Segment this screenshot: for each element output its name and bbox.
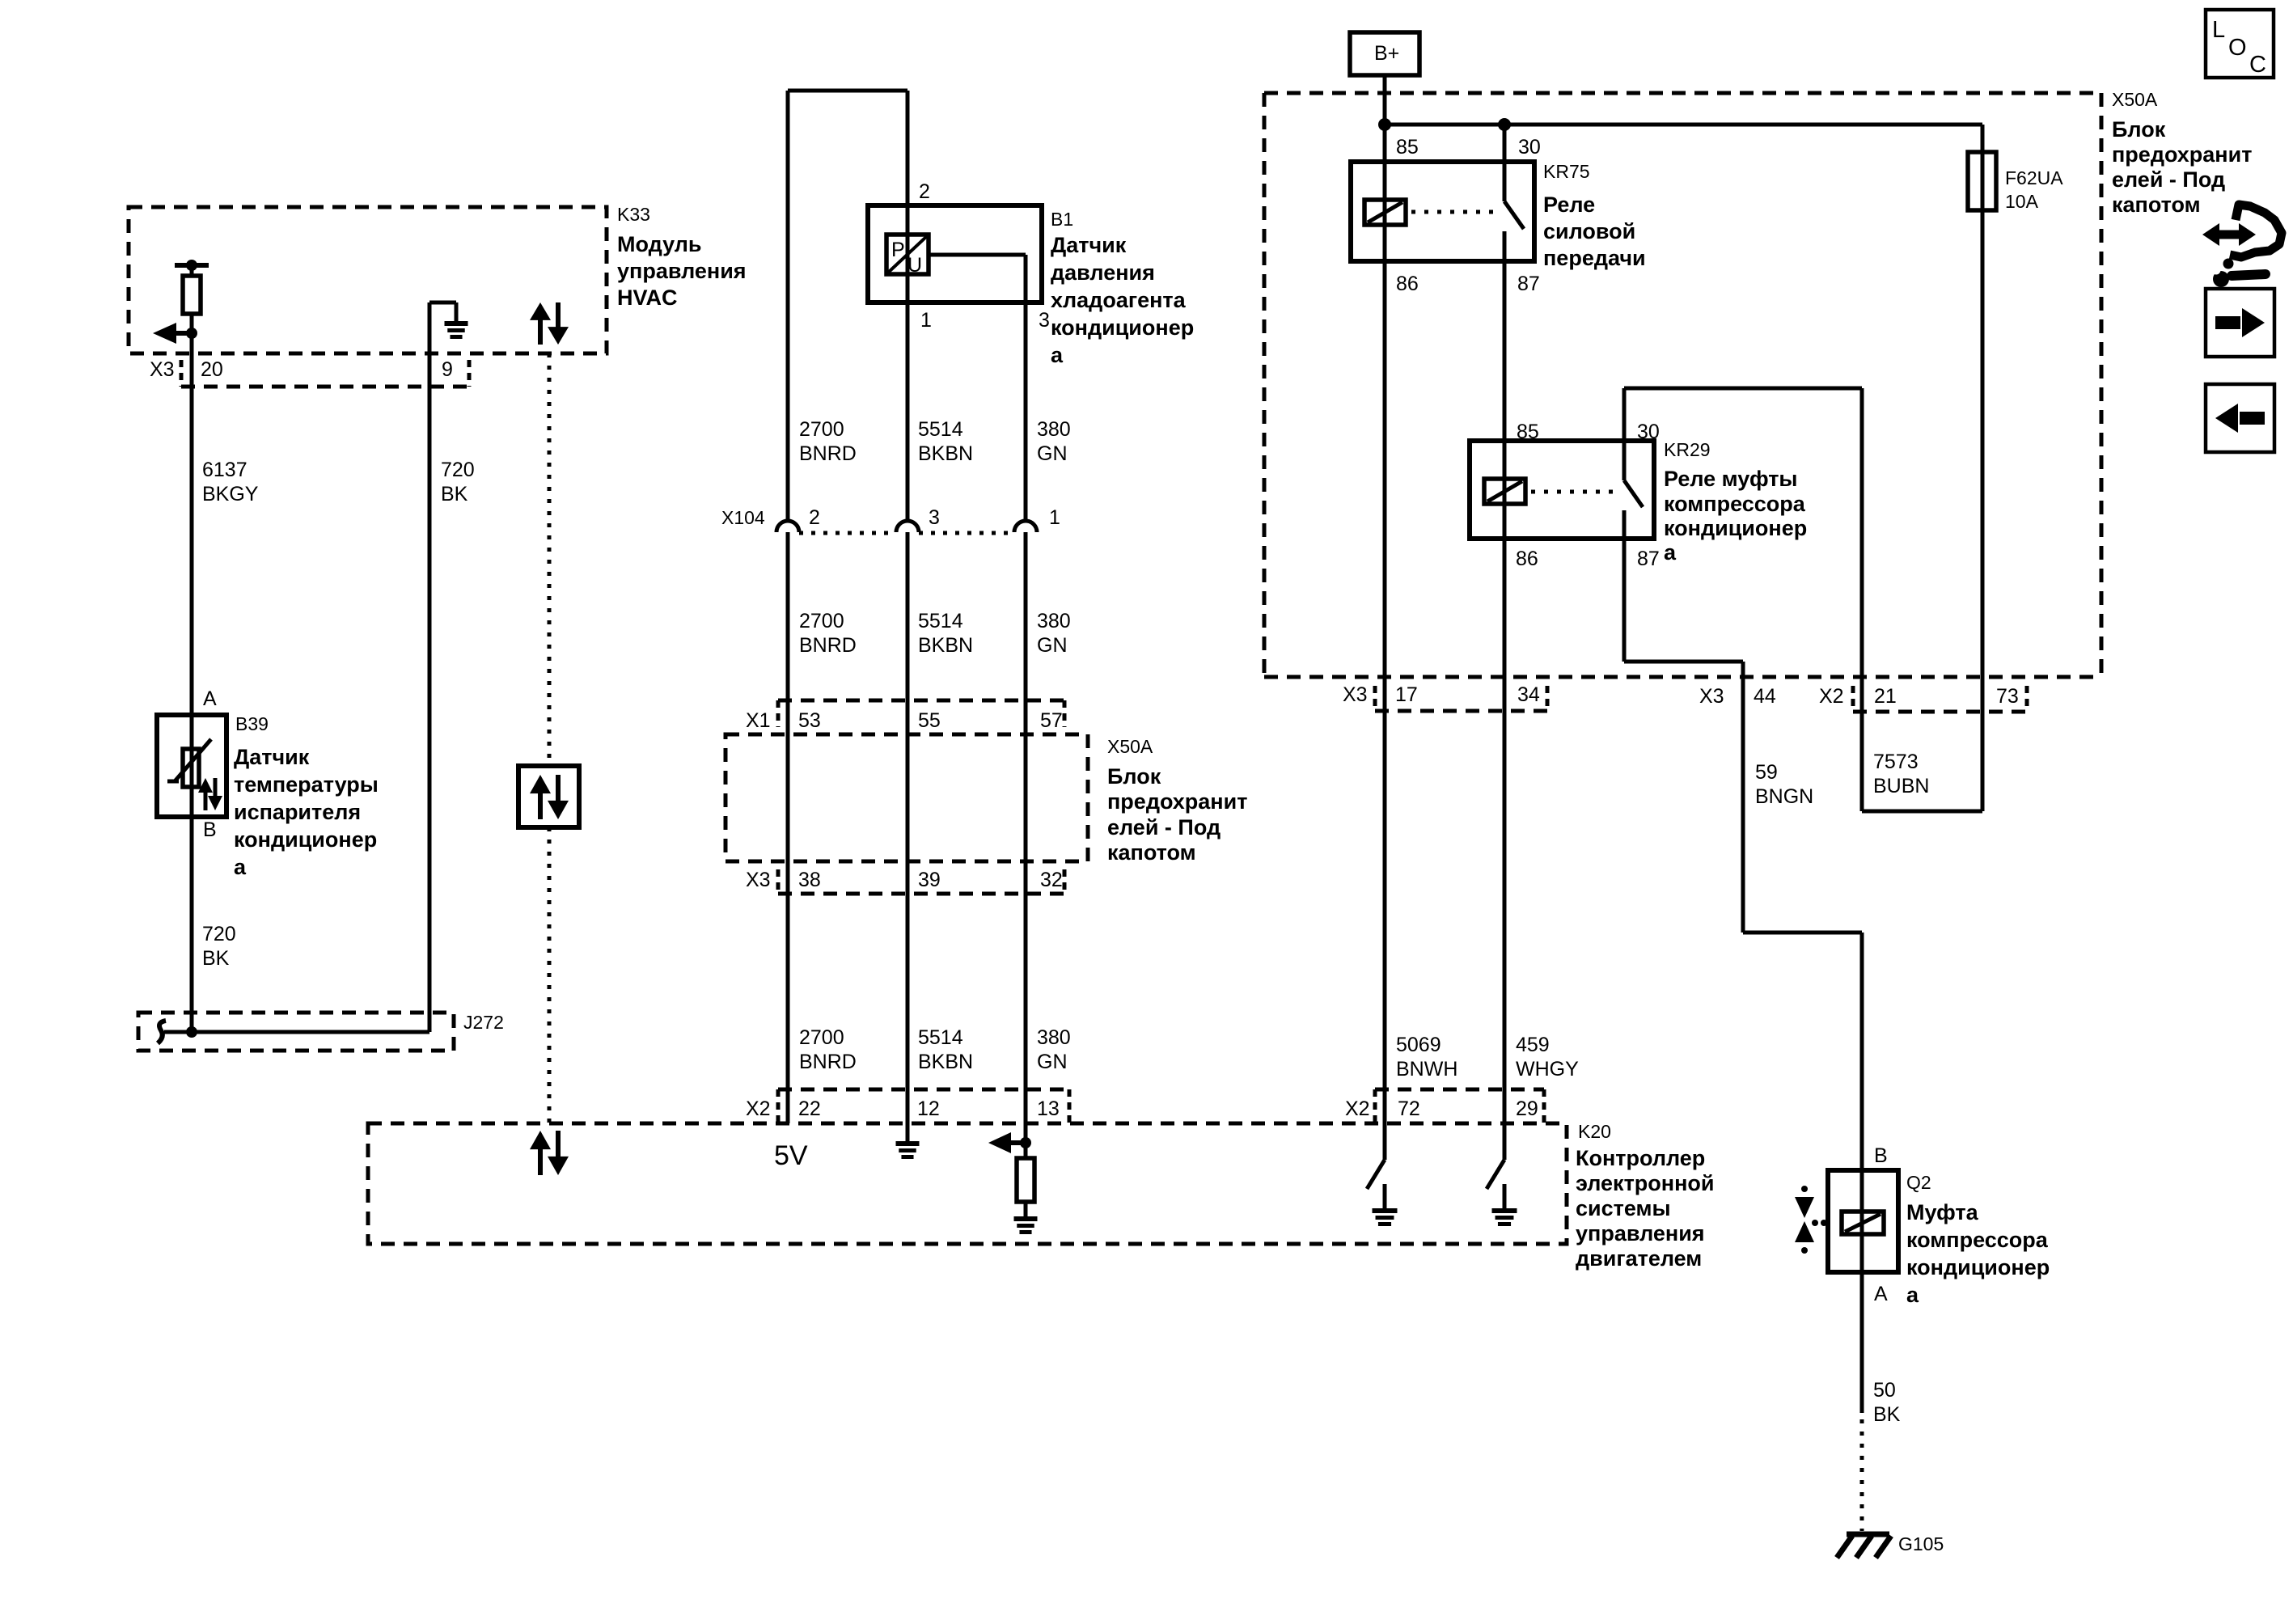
label Реле муфты компрессора кондиционера xyxy=(1664,467,1807,565)
label Датчик температуры испарителя кондиционера xyxy=(234,745,379,879)
designator X50A (top-right) xyxy=(2112,89,2158,110)
pin 86 of KR75 xyxy=(1396,273,1419,295)
svg-text:Блок: Блок xyxy=(2112,117,2166,142)
thermistor symbol inside B39 xyxy=(167,739,211,787)
loop top horizontal wire xyxy=(1624,387,1862,391)
svg-text:BKBN: BKBN xyxy=(918,1051,973,1073)
label 2700 BNRD (above X104) xyxy=(799,418,857,465)
module K33 HVAC control module (dashed box) xyxy=(129,207,607,353)
coil of KR29 xyxy=(1484,479,1525,504)
svg-text:Датчик: Датчик xyxy=(1051,233,1127,257)
svg-text:3: 3 xyxy=(1039,309,1050,332)
svg-text:50: 50 xyxy=(1873,1379,1896,1402)
svg-text:управления: управления xyxy=(1576,1221,1705,1245)
svg-text:Датчик: Датчик xyxy=(234,745,310,769)
svg-text:O: O xyxy=(2228,35,2247,61)
fuse block X50A underhood (top-right dashed box) xyxy=(1264,93,2101,677)
svg-text:BNRD: BNRD xyxy=(799,634,857,657)
svg-text:BUBN: BUBN xyxy=(1873,775,1929,797)
svg-text:а: а xyxy=(1906,1283,1919,1307)
wire 7573 BUBN vertical xyxy=(1860,388,1864,811)
svg-text:2700: 2700 xyxy=(799,1026,844,1049)
svg-text:39: 39 xyxy=(918,869,941,891)
svg-text:кондиционер: кондиционер xyxy=(1906,1255,2050,1279)
label Реле силовой передачи xyxy=(1543,192,1646,270)
svg-text:1: 1 xyxy=(1049,506,1060,529)
svg-text:компрессора: компрессора xyxy=(1906,1228,2049,1252)
designator G105 xyxy=(1898,1533,1944,1554)
label 720 BK (lower left wire) xyxy=(202,923,236,970)
svg-text:13: 13 xyxy=(1037,1097,1060,1120)
switch blade of KR29 xyxy=(1624,441,1643,539)
svg-text:2: 2 xyxy=(809,506,820,529)
svg-text:P: P xyxy=(891,239,905,261)
svg-text:55: 55 xyxy=(918,709,941,732)
label 720 BK (right wire) xyxy=(441,459,475,505)
dotted actuation line KR29 xyxy=(1531,490,1618,494)
designator KR75 xyxy=(1543,161,1590,182)
svg-text:елей - Под: елей - Под xyxy=(1107,815,1221,839)
wire from P/U to pin 3 xyxy=(929,253,1026,257)
up/down arrows (serial data) inside K20 xyxy=(530,1131,569,1175)
clutch Q2 compressor (box) xyxy=(1828,1170,1898,1272)
small up/down arrows inside B39 xyxy=(198,778,222,810)
svg-text:9: 9 xyxy=(442,358,453,381)
svg-text:5514: 5514 xyxy=(918,610,963,632)
svg-text:температуры: температуры xyxy=(234,772,379,797)
svg-text:капотом: капотом xyxy=(2112,192,2201,217)
label 5514 BKBN (above X104) xyxy=(918,418,973,465)
svg-text:WHGY: WHGY xyxy=(1516,1058,1579,1081)
svg-text:X3: X3 xyxy=(746,869,771,891)
label Муфта компрессора кондиционера xyxy=(1906,1200,2050,1307)
pin A of Q2 xyxy=(1874,1283,1888,1305)
pin 85 of KR75 xyxy=(1396,136,1419,159)
svg-text:системы: системы xyxy=(1576,1196,1671,1220)
label Модуль управления HVAC xyxy=(617,232,747,310)
designator B1 xyxy=(1051,209,1073,230)
wire through B1 (pin 2 to pin 1) xyxy=(906,91,910,1144)
up/down arrows (serial data) inside K33 xyxy=(530,302,569,345)
svg-text:B: B xyxy=(1874,1144,1888,1167)
svg-text:1: 1 xyxy=(920,309,932,332)
svg-text:32: 32 xyxy=(1040,869,1063,891)
svg-text:силовой: силовой xyxy=(1543,219,1635,243)
wire 6137 BKGY from K33 pin 20 to B39 xyxy=(190,333,194,1032)
wire from B+ down xyxy=(1383,75,1387,125)
svg-text:BNRD: BNRD xyxy=(799,1051,857,1073)
svg-text:2700: 2700 xyxy=(799,418,844,441)
designator K33 xyxy=(617,204,650,225)
svg-text:X50A: X50A xyxy=(2112,89,2158,110)
svg-text:Блок: Блок xyxy=(1107,764,1161,789)
pin 30 of KR29 xyxy=(1637,421,1660,443)
svg-text:а: а xyxy=(234,855,247,879)
svg-text:J272: J272 xyxy=(463,1012,504,1033)
svg-text:A: A xyxy=(1874,1283,1888,1305)
route/tools icon xyxy=(2212,205,2282,287)
dotted serial data wire to K20 xyxy=(548,827,552,1123)
svg-text:X2: X2 xyxy=(1345,1097,1370,1120)
pin B of B39 xyxy=(203,818,217,841)
svg-text:6137: 6137 xyxy=(202,459,247,481)
svg-text:L: L xyxy=(2212,17,2225,43)
svg-text:5V: 5V xyxy=(774,1140,808,1171)
svg-text:85: 85 xyxy=(1396,136,1419,159)
svg-text:A: A xyxy=(203,687,217,710)
svg-text:86: 86 xyxy=(1516,548,1538,570)
label 5514 BKBN (above K20) xyxy=(918,1026,973,1073)
fuse block X50A underhood (middle dashed box) xyxy=(726,734,1088,861)
coil of KR75 xyxy=(1364,200,1406,225)
connector X3 (right), pins 17 34 xyxy=(1343,683,1547,711)
svg-text:BKBN: BKBN xyxy=(918,634,973,657)
dotted actuation line KR75 xyxy=(1411,210,1498,214)
forward arrow box xyxy=(2206,289,2274,357)
svg-text:предохранит: предохранит xyxy=(2112,142,2252,167)
label 7573 BUBN xyxy=(1873,751,1929,797)
svg-text:BNRD: BNRD xyxy=(799,442,857,465)
svg-text:BNWH: BNWH xyxy=(1396,1058,1457,1081)
mechanical linkage arrows left of Q2 xyxy=(1795,1186,1827,1254)
svg-text:380: 380 xyxy=(1037,418,1071,441)
connector X104 (inline, pins 2 3 1) xyxy=(721,506,1060,533)
svg-text:X2: X2 xyxy=(746,1097,771,1120)
wire loop top of B1 xyxy=(788,89,907,93)
svg-text:хладоагента: хладоагента xyxy=(1051,288,1187,312)
svg-text:Контроллер: Контроллер xyxy=(1576,1146,1705,1170)
svg-text:елей - Под: елей - Под xyxy=(2112,167,2225,192)
LOC reference box xyxy=(2206,10,2274,78)
wire 380 GN (right vertical) xyxy=(1024,255,1028,1143)
svg-text:72: 72 xyxy=(1398,1097,1420,1120)
svg-text:X3: X3 xyxy=(1699,685,1724,708)
pin 30 of KR75 xyxy=(1518,136,1541,159)
switch to ground inside K20 (pin 72) xyxy=(1367,1160,1398,1224)
svg-text:X3: X3 xyxy=(1343,683,1368,706)
designator J272 xyxy=(463,1012,504,1033)
label 59 BNGN xyxy=(1755,761,1813,808)
svg-text:459: 459 xyxy=(1516,1034,1550,1056)
signal arrow (to left) with junction inside K33 xyxy=(153,323,197,344)
svg-text:7573: 7573 xyxy=(1873,751,1919,773)
svg-text:Муфта: Муфта xyxy=(1906,1200,1979,1224)
svg-text:компрессора: компрессора xyxy=(1664,492,1806,516)
ground below resistor xyxy=(1014,1219,1038,1233)
relay KR75 (box) xyxy=(1351,162,1534,261)
label 459 WHGY xyxy=(1516,1034,1579,1081)
svg-text:BK: BK xyxy=(441,483,468,505)
signal arrow and junction inside K20 (pin 13) xyxy=(988,1132,1031,1153)
svg-text:Q2: Q2 xyxy=(1906,1172,1931,1193)
svg-text:BKBN: BKBN xyxy=(918,442,973,465)
svg-text:X1: X1 xyxy=(746,709,771,732)
svg-text:GN: GN xyxy=(1037,442,1068,465)
back arrow box xyxy=(2206,384,2274,452)
svg-text:BNGN: BNGN xyxy=(1755,785,1813,808)
svg-text:3: 3 xyxy=(929,506,940,529)
svg-text:2700: 2700 xyxy=(799,610,844,632)
wire jog to Q2 xyxy=(1743,933,1862,1413)
svg-text:капотом: капотом xyxy=(1107,840,1196,865)
controller K20 ECM (dashed box) xyxy=(368,1123,1567,1244)
svg-text:380: 380 xyxy=(1037,610,1071,632)
wire 59 BNGN vertical xyxy=(1741,662,1745,933)
switch to ground inside K20 (pin 29) xyxy=(1487,1160,1517,1224)
label 5514 BKBN (below X104) xyxy=(918,610,973,657)
relay KR29 (box) xyxy=(1470,441,1654,539)
label 2700 BNRD (above K20) xyxy=(799,1026,857,1073)
svg-text:B39: B39 xyxy=(235,713,269,734)
svg-text:X3: X3 xyxy=(150,358,175,381)
svg-text:53: 53 xyxy=(798,709,821,732)
connector X3 of K33, pins 20 and 9 xyxy=(150,358,469,387)
svg-text:предохранит: предохранит xyxy=(1107,789,1247,814)
wire KR75 pin87 to KR29 pin85 (459/5069 path) xyxy=(1503,261,1507,1160)
sensor B39 evaporator temperature (box) xyxy=(157,715,226,817)
svg-text:73: 73 xyxy=(1996,685,2019,708)
svg-text:Модуль: Модуль xyxy=(617,232,702,256)
svg-text:5514: 5514 xyxy=(918,1026,963,1049)
label 6137 BKGY xyxy=(202,459,259,505)
svg-text:5514: 5514 xyxy=(918,418,963,441)
svg-text:K33: K33 xyxy=(617,204,650,225)
svg-text:57: 57 xyxy=(1040,709,1063,732)
svg-text:BK: BK xyxy=(1873,1403,1901,1426)
pin 86 of KR29 xyxy=(1516,548,1538,570)
connector X3 of fuse block, pins 38 39 32 xyxy=(746,869,1064,894)
svg-text:X50A: X50A xyxy=(1107,736,1153,757)
pin 2 of B1 xyxy=(919,180,930,203)
pin 3 of B1 xyxy=(1039,309,1050,332)
designator Q2 xyxy=(1906,1172,1931,1193)
main horizontal power wire xyxy=(1385,123,1982,127)
svg-text:электронной: электронной xyxy=(1576,1171,1714,1195)
label 380 GN (above X104) xyxy=(1037,418,1071,465)
splice squiggle symbol xyxy=(158,1021,166,1043)
svg-text:GN: GN xyxy=(1037,634,1068,657)
svg-text:87: 87 xyxy=(1637,548,1660,570)
designator X50A (middle) xyxy=(1107,736,1153,757)
svg-text:34: 34 xyxy=(1517,683,1540,706)
pin 87 of KR29 xyxy=(1637,548,1660,570)
svg-text:12: 12 xyxy=(917,1097,940,1120)
svg-text:720: 720 xyxy=(202,923,236,945)
svg-text:Реле муфты: Реле муфты xyxy=(1664,467,1798,491)
wire KR29 pin30 up to loop xyxy=(1622,388,1627,441)
svg-text:17: 17 xyxy=(1395,683,1418,706)
label 2700 BNRD (below X104) xyxy=(799,610,857,657)
connector X3 pin 44 labels xyxy=(1699,685,1776,708)
double horizontal arrow icon xyxy=(2202,223,2256,246)
connector X2 of K20, pins 72 29 xyxy=(1345,1089,1544,1123)
svg-text:HVAC: HVAC xyxy=(617,285,678,310)
dotted wire to G105 xyxy=(1860,1419,1864,1531)
wire joining J272 xyxy=(164,1026,429,1038)
dotted serial data wire from K33 xyxy=(548,353,552,766)
svg-text:29: 29 xyxy=(1516,1097,1538,1120)
label 380 GN (below X104) xyxy=(1037,610,1071,657)
loop bottom horizontal wire xyxy=(1862,810,1982,814)
svg-text:BK: BK xyxy=(202,947,230,970)
coil of Q2 xyxy=(1842,1212,1884,1234)
power node B+ xyxy=(1350,32,1419,75)
pin 1 of B1 xyxy=(920,309,932,332)
svg-text:BKGY: BKGY xyxy=(202,483,259,505)
svg-text:передачи: передачи xyxy=(1543,246,1646,270)
svg-text:кондиционер: кондиционер xyxy=(234,827,377,852)
wire 2700 BNRD (left vertical) xyxy=(786,91,790,1123)
svg-text:Реле: Реле xyxy=(1543,192,1595,217)
junction at KR75 pin 85 xyxy=(1378,118,1391,131)
svg-text:C: C xyxy=(2249,52,2266,78)
svg-text:X2: X2 xyxy=(1819,685,1844,708)
pin A of B39 xyxy=(203,687,217,710)
pin 85 of KR29 xyxy=(1517,421,1539,443)
sensor B1 refrigerant pressure (box) xyxy=(868,205,1042,302)
designator B39 xyxy=(235,713,269,734)
svg-text:U: U xyxy=(907,254,922,277)
svg-text:10A: 10A xyxy=(2005,191,2039,212)
resistor inside K20 xyxy=(1017,1143,1034,1219)
svg-text:87: 87 xyxy=(1517,273,1540,295)
svg-text:G105: G105 xyxy=(1898,1533,1944,1554)
wire 50 BK below Q2 xyxy=(1860,1272,1864,1413)
svg-text:5069: 5069 xyxy=(1396,1034,1441,1056)
ground G105 (chassis) xyxy=(1837,1534,1891,1558)
svg-text:380: 380 xyxy=(1037,1026,1071,1049)
svg-text:44: 44 xyxy=(1754,685,1776,708)
svg-text:21: 21 xyxy=(1874,685,1897,708)
label Блок предохранителей - Под капотом (middle) xyxy=(1107,764,1247,865)
designator K20 xyxy=(1578,1121,1611,1142)
pin B of Q2 xyxy=(1874,1144,1888,1167)
svg-text:а: а xyxy=(1664,540,1677,565)
svg-text:F62UA: F62UA xyxy=(2005,167,2063,188)
ground inside K20 (pin 12) xyxy=(896,1144,920,1157)
svg-text:X104: X104 xyxy=(721,507,765,528)
wire KR75 coil branch (pin 85 to 86) xyxy=(1383,125,1387,1160)
connector X2, pins 21 73 xyxy=(1819,685,2027,712)
wire KR29 pin87 down and right xyxy=(1624,539,1743,662)
connector X1 of fuse block, pins 53 55 57 xyxy=(746,700,1064,732)
label 50 BK xyxy=(1873,1379,1901,1426)
svg-text:86: 86 xyxy=(1396,273,1419,295)
connector X2 of K20, pins 22 12 13 xyxy=(746,1089,1069,1123)
svg-text:B: B xyxy=(203,818,217,841)
serial data up/down arrows box xyxy=(518,766,579,827)
svg-text:30: 30 xyxy=(1518,136,1541,159)
label 5069 BNWH xyxy=(1396,1034,1457,1081)
pin 87 of KR75 xyxy=(1517,273,1540,295)
P/U transducer symbol inside B1 xyxy=(886,235,929,277)
svg-text:B+: B+ xyxy=(1374,42,1399,65)
svg-text:20: 20 xyxy=(201,358,223,381)
svg-text:а: а xyxy=(1051,343,1064,367)
svg-text:KR75: KR75 xyxy=(1543,161,1590,182)
label Блок предохранителей - Под капотом (top-right) xyxy=(2112,117,2252,217)
svg-text:испарителя: испарителя xyxy=(234,800,361,824)
fuse F62UA 10A xyxy=(1968,152,2063,212)
svg-text:720: 720 xyxy=(441,459,475,481)
svg-text:GN: GN xyxy=(1037,1051,1068,1073)
designator KR29 xyxy=(1664,439,1711,460)
resistor (sensor feed) inside K33 xyxy=(175,260,209,333)
switch blade of KR75 xyxy=(1504,201,1524,261)
svg-text:38: 38 xyxy=(798,869,821,891)
wire KR75 switch branch (pin 30 down) xyxy=(1503,125,1507,201)
splice J272 (dashed box) xyxy=(138,1013,454,1051)
svg-text:59: 59 xyxy=(1755,761,1778,784)
svg-text:B1: B1 xyxy=(1051,209,1073,230)
svg-text:K20: K20 xyxy=(1578,1121,1611,1142)
svg-text:управления: управления xyxy=(617,259,747,283)
label Датчик давления хладоагента кондиционера xyxy=(1051,233,1194,367)
wire 720 BK from K33 pin 9 to J272 xyxy=(428,302,432,1032)
svg-text:кондиционер: кондиционер xyxy=(1051,315,1194,340)
fuse feed wire (right vertical) xyxy=(1981,125,1985,811)
label 380 GN (above K20) xyxy=(1037,1026,1071,1073)
label 5V inside K20 xyxy=(774,1140,808,1171)
svg-text:2: 2 xyxy=(919,180,930,203)
svg-text:22: 22 xyxy=(798,1097,821,1120)
svg-text:кондиционер: кондиционер xyxy=(1664,516,1807,540)
svg-text:KR29: KR29 xyxy=(1664,439,1711,460)
ground symbol inside K33 xyxy=(429,302,468,337)
junction at KR75 pin 30 xyxy=(1498,118,1511,131)
svg-text:давления: давления xyxy=(1051,260,1155,285)
label Контроллер электронной системы управления двигателем xyxy=(1576,1146,1714,1271)
svg-text:двигателем: двигателем xyxy=(1576,1246,1702,1271)
